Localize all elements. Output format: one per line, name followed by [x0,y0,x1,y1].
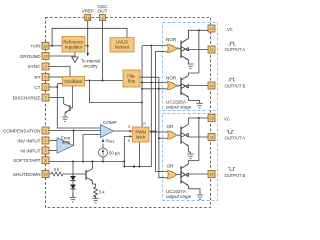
UC1525A output stage dashed box [163,23,218,111]
svg-text:SOFTSTART: SOFTSTART [13,158,41,163]
wire: 3k resistor to shutdown transistor base [63,173,86,175]
wire: OR C input1 line [150,46,152,167]
svg-text:OR: OR [167,164,175,169]
ground: reference regulator (open triangle) [72,57,78,63]
pin 14 OUTPUT B (1527A) [208,171,215,178]
ground: 5k resistor [92,199,98,203]
op-amp: error amplifier [57,136,74,154]
svg-text:OUTPUT B: OUTPUT B [225,173,246,178]
wire: 50uA source to softstart rail [102,157,104,162]
NOR gate A [166,37,179,53]
svg-text:COMPENSATION: COMPENSATION [3,128,41,133]
wire: section B emitter to ground [189,97,200,103]
svg-text:+VIN: +VIN [30,44,41,49]
ground: discharge transistor [62,113,68,122]
svg-text:4: 4 [101,16,103,20]
svg-text:5 k: 5 k [99,190,105,195]
waveform: output A (1527A) [227,130,234,133]
wire: NOR B output to bases [179,85,182,87]
svg-text:VC: VC [224,117,230,122]
svg-text:DISCHARGE: DISCHARGE [13,95,41,100]
pin 16 VREF [85,15,91,21]
wire: NOR A output to bases [179,48,182,50]
wire: SYNC to oscillator top [49,67,70,77]
pin 12 GROUND [42,53,49,60]
wire: ref regulator ground drop [74,52,76,57]
pin 3 SYNC [42,63,49,70]
pin 9 COMPENSATION [42,127,49,134]
wire: CT to oscillator [49,86,57,88]
svg-text:13: 13 [209,27,213,31]
svg-text:OUTPUT A: OUTPUT A [225,136,246,141]
wire: OR C output to bases [177,134,181,136]
svg-text:15: 15 [43,44,47,48]
svg-text:12: 12 [43,55,47,59]
block: flip flop [123,70,140,87]
pin 1 INV INPUT [42,137,49,144]
wire: NOR A input1 rail [142,45,167,47]
svg-text:3 k: 3 k [54,167,60,172]
svg-text:output stage: output stage [166,105,192,110]
svg-text:1: 1 [44,139,46,143]
pin 11 OUTPUT A (1527A) [208,134,215,141]
wire: shutdown transistor collector to softstart rail [92,162,94,169]
svg-text:14: 14 [209,84,213,88]
pin 5 CT [42,84,49,91]
wire: ramp from oscillator line down to PWM comparator [90,81,143,103]
wire: OR D output to bases [177,174,181,176]
ground: section A [187,64,193,68]
arrow: comp output into latch [129,130,132,132]
svg-text:13: 13 [209,117,213,121]
wire: VC drop to section B [198,30,200,73]
wire: softstart clamp to comparator [83,135,101,162]
pin 11 OUTPUT A (1525A) [208,46,215,53]
wire: GROUND pin to ground symbol [49,55,75,57]
waveform: output A (1525A) [229,42,236,45]
wire: upper collector to VC rail [189,30,209,38]
pin 6 RT [42,74,49,81]
wire: 50uA source top to VREF arrow [102,144,104,149]
svg-text:output stage: output stage [166,194,192,199]
wire: output D node to pin 14 (box2) [189,173,209,177]
output stage A transistors [181,39,189,61]
wire: shutdown rail branch up to latch [138,142,140,167]
wire: upper collector to VC rail (box2) [189,118,209,124]
waveform: output B (1527A) [228,168,235,171]
transistor: shutdown Q [86,169,93,181]
wire: VREF pin down to internal circuitry arrow [87,21,89,54]
wire: DISCHARGE to discharge transistor collector [49,98,64,105]
wire: VC drop to section D [198,118,200,161]
wire: output B node to pin [189,85,209,89]
pin 14 OUTPUT B (1525A) [208,82,215,89]
block: PWM latch [133,127,150,142]
svg-text:REF: REF [108,140,114,144]
arrow: shutdown into latch S2 [129,135,132,137]
svg-text:GROUND: GROUND [20,54,41,59]
resistor: 3k (horizontal zigzag) [51,172,63,176]
svg-text:INV INPUT: INV INPUT [17,138,40,143]
wire: INV INPUT to error amp [49,140,57,142]
wire: section D collector rail to VC drop [189,161,199,165]
svg-text:16: 16 [86,16,90,20]
svg-text:NOR: NOR [166,37,177,42]
OR gate C [167,124,177,139]
diode D2 [70,185,76,190]
svg-text:SYNC: SYNC [27,64,41,69]
wire: section D emitter to ground [189,186,201,195]
IC boundary dashed border [46,18,211,208]
waveform: output B (1525A) [228,78,235,81]
svg-text:6: 6 [44,76,46,80]
arrow: shutdown rail direction [132,165,135,168]
wire: CT jog into oscillator [57,84,62,87]
svg-text:latch: latch [136,135,146,140]
wire: SHUTDOWN pin to 3k resistor [49,173,51,175]
wire: OSC OUT pin down to oscillator output line [102,21,104,81]
svg-text:10: 10 [43,173,47,177]
svg-text:NOR: NOR [166,76,177,81]
svg-text:2: 2 [44,149,46,153]
wire: shutdown signal rail [124,166,151,168]
wire: softstart rail down to shutdown signal rail [123,162,125,167]
wire: 5k resistor to ground [95,196,97,198]
svg-text:11: 11 [210,136,214,140]
pin 4 OSC OUT [100,15,106,21]
wire: section C emitter to ground [189,146,191,154]
wire: diodes to ground [72,193,74,198]
svg-text:OUTPUT A: OUTPUT A [225,47,246,52]
transistor: oscillator discharge Q [64,86,73,113]
Vref arrow above current source [102,139,105,142]
wire: ref regulator output stub to VREF line [85,45,88,47]
wire: NOR B input2 [142,88,167,90]
wire: SOFTSTART pin rail [49,161,124,163]
pin 8 SOFTSTART [42,157,49,164]
svg-text:OUT: OUT [98,9,108,14]
output stage D transistors [181,164,189,186]
svg-text:COMP: COMP [103,120,117,125]
svg-text:9: 9 [44,129,46,133]
wire: output A node to pin [189,48,209,52]
svg-text:RT: RT [34,75,40,80]
wire: RT to oscillator [49,76,63,78]
wire: NOR A input2 [156,50,167,52]
wire: flip-flop out1 [140,76,159,78]
svg-text:50 µA: 50 µA [109,151,120,156]
wire: +VIN to reference regulator [49,21,167,199]
svg-text:R: R [143,122,146,126]
output stage B transistors [181,76,189,98]
block: reference regulator [62,37,85,53]
svg-text:11: 11 [210,48,214,52]
svg-text:lockout: lockout [115,45,130,50]
wire: OR C input1 spur [151,131,166,133]
wire: output node to pin 11 (box2) [189,133,209,137]
svg-text:7: 7 [44,96,46,100]
svg-text:SHUTDOWN: SHUTDOWN [13,172,41,177]
output stage C transistors [181,124,189,146]
wire: error amp output to compensation rail [73,131,75,146]
wire: flip-flop out2 to NOR B input1 [140,81,167,83]
wire: +VIN branch up to UVLO rail [52,28,127,46]
svg-text:circuitry: circuitry [83,64,98,69]
pin 7 DISCHARGE [42,94,49,101]
wire: COMPENSATION rail to comparator [49,130,101,132]
wire: comparator output to PWM latch S1 [114,130,133,132]
pin 13 VC (1525A) [208,25,215,32]
ground: section C [187,154,193,158]
wire: lower emitter to ground [188,60,190,64]
wire: clamp diodes drop [72,162,74,177]
svg-text:OUTPUT B: OUTPUT B [225,84,246,89]
svg-text:8: 8 [44,159,46,163]
wire: PWM line vertical [156,51,167,171]
wire: NI INPUT to error amp [49,150,57,152]
ground: section D [197,195,203,199]
svg-text:14: 14 [209,173,213,177]
svg-text:amp: amp [62,139,71,144]
pin 13 VC (1527A) [208,115,215,122]
pin 15 +VIN [42,42,49,49]
block: oscillator [63,77,85,87]
junction dots [51,45,160,168]
resistor: 5k (vertical zigzag) [94,187,98,197]
NOR gate B [166,76,179,90]
pin 10 SHUTDOWN [42,171,49,178]
svg-text:VREF: VREF [81,9,94,14]
wire: shutdown emitter to 5k resistor [93,181,96,187]
svg-text:VC: VC [227,27,233,32]
wire: clock/latch-R vertical [141,46,143,127]
ground: section B [196,104,202,108]
svg-text:regulator: regulator [65,45,83,50]
wire: PWM latch output [149,130,156,132]
pin 2 NI INPUT [42,147,49,154]
ground: diodes [70,198,76,202]
comparator: COMP [101,120,117,138]
svg-text:CT: CT [34,85,40,90]
svg-text:flop: flop [128,79,136,84]
arrow: to internal circuitry [86,53,89,57]
wire: OR C input2 spur [159,137,167,139]
wire: latch S2 input from shutdown rail [124,137,131,167]
svg-text:3: 3 [44,65,46,69]
wire: oscillator output to flip-flop [85,80,124,82]
svg-text:Oscillator: Oscillator [64,79,83,84]
UC1527A output stage dashed box [163,114,218,201]
wire: FF out1 vertical distribution [159,77,167,178]
svg-text:5: 5 [44,86,46,90]
diode D1 [70,176,76,181]
svg-text:NI INPUT: NI INPUT [20,148,40,153]
wire: ramp from CT down to comparator [57,87,100,128]
OR gate D [167,164,177,179]
block: UVLO lockout [110,38,134,52]
wire: section B collector rail to VC drop [189,73,199,76]
svg-text:OR: OR [167,124,175,129]
current source: 50 uA [99,148,121,157]
